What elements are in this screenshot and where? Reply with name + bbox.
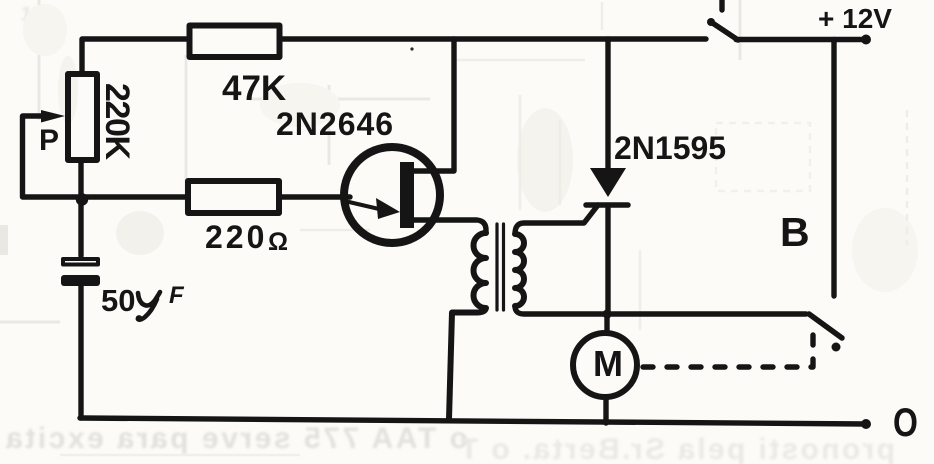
svg-text:M: M (593, 343, 623, 384)
svg-text:O: O (893, 400, 918, 445)
svg-text:P: P (39, 124, 59, 157)
svg-text:2N2646: 2N2646 (276, 106, 394, 142)
svg-text:220: 220 (205, 219, 267, 255)
svg-text:+ 12V: + 12V (818, 3, 892, 34)
svg-text:B: B (780, 209, 810, 255)
svg-text:220K: 220K (98, 83, 136, 160)
svg-text:o TAA 775 serve para excita: o TAA 775 serve para excita (6, 422, 468, 455)
svg-text:Ω: Ω (268, 228, 288, 256)
svg-text:2N1595: 2N1595 (614, 130, 726, 166)
svg-text:F: F (169, 282, 185, 309)
svg-text:50: 50 (101, 283, 135, 318)
svg-text:47K: 47K (222, 69, 286, 108)
